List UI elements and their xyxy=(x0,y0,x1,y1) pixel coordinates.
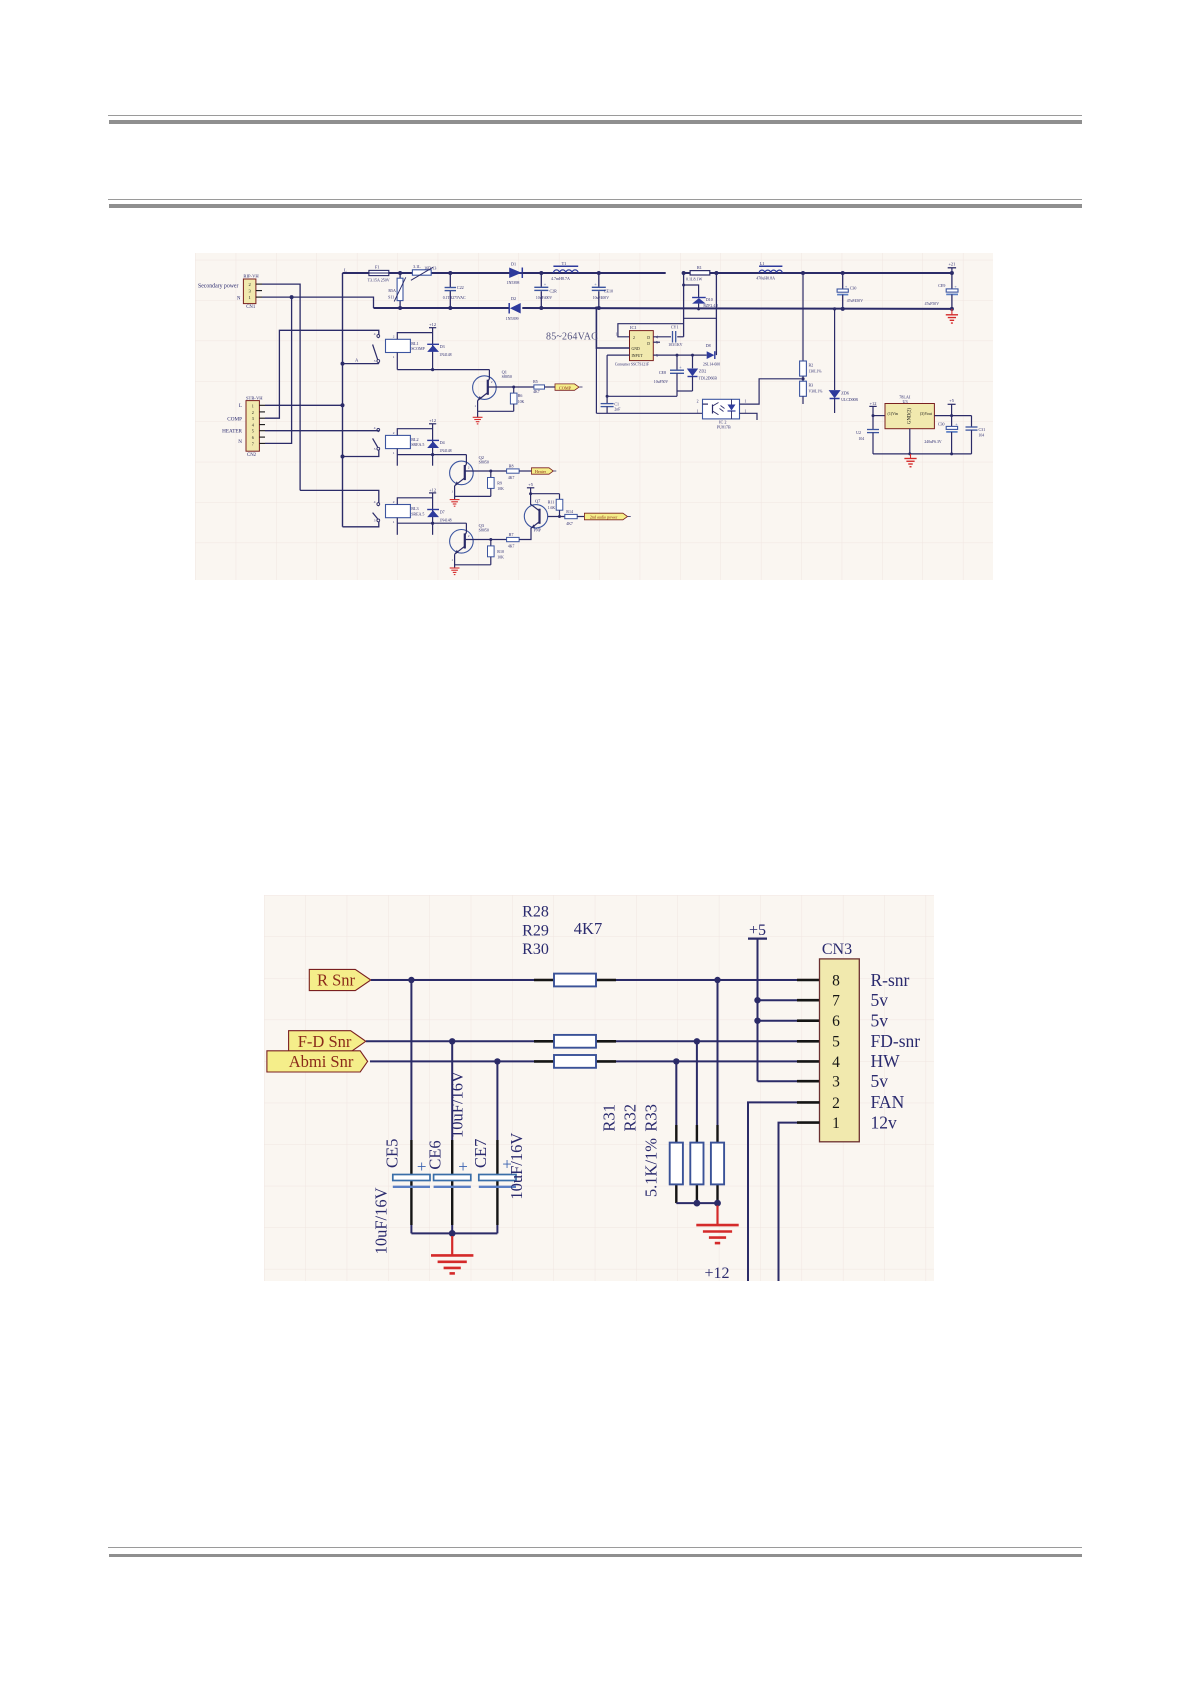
svg-text:+12: +12 xyxy=(704,1265,729,1281)
svg-text:4K7: 4K7 xyxy=(508,544,515,548)
svg-text:C22: C22 xyxy=(457,285,464,290)
resistor R10 xyxy=(489,538,492,541)
svg-text:L1: L1 xyxy=(760,261,765,266)
resistor R14 xyxy=(565,514,577,518)
svg-text:ULCD00B: ULCD00B xyxy=(841,398,858,402)
svg-text:1N5399: 1N5399 xyxy=(506,316,519,321)
svg-text:Q7: Q7 xyxy=(535,498,541,503)
svg-text:7: 7 xyxy=(252,441,254,446)
svg-text:T1: T1 xyxy=(562,261,567,266)
top rule thin xyxy=(108,115,1082,116)
wire N rail xyxy=(374,307,510,309)
svg-text:R3: R3 xyxy=(809,383,814,388)
svg-text:R9: R9 xyxy=(497,480,502,485)
svg-text:C1: C1 xyxy=(614,401,619,406)
diode D8 xyxy=(707,351,715,359)
svg-text:1: 1 xyxy=(393,520,395,524)
svg-text:RIP-VH: RIP-VH xyxy=(243,274,259,279)
wire U3 input xyxy=(873,415,885,417)
capacitor CY1 xyxy=(653,336,671,338)
ground Q3 xyxy=(454,565,456,568)
svg-text:6: 6 xyxy=(832,1013,840,1030)
resistor R7 xyxy=(507,537,519,541)
wire +5 to pin7 xyxy=(758,999,798,1001)
svg-text:10uF/16V: 10uF/16V xyxy=(507,1133,526,1200)
svg-text:1N4148: 1N4148 xyxy=(439,518,451,522)
wire Q2 base xyxy=(465,470,507,472)
resistor R33 xyxy=(711,1143,724,1185)
svg-text:+12: +12 xyxy=(429,322,436,327)
svg-text:L: L xyxy=(344,268,347,273)
svg-text:GND: GND xyxy=(632,347,640,351)
wire L vertical rail xyxy=(342,273,344,527)
capacitor C31 xyxy=(971,416,973,427)
svg-text:T3.15A 250V: T3.15A 250V xyxy=(368,277,390,282)
svg-text:2: 2 xyxy=(393,500,395,504)
wire IC1 gnd feed xyxy=(596,308,629,348)
capacitor C20 xyxy=(842,273,844,289)
svg-text:FD-snr: FD-snr xyxy=(871,1031,921,1051)
relay switch contacts xyxy=(377,335,380,338)
wire Q3 base xyxy=(465,539,507,541)
relay RL3 xyxy=(386,505,411,518)
wire jog xyxy=(684,317,717,319)
svg-text:R7: R7 xyxy=(509,532,514,537)
svg-text:4K7: 4K7 xyxy=(508,476,515,480)
svg-text:1.6K: 1.6K xyxy=(548,506,556,510)
svg-text:104: 104 xyxy=(859,437,865,441)
ground Q2 xyxy=(454,497,456,500)
svg-text:CY1: CY1 xyxy=(671,325,679,330)
svg-text:HEATER: HEATER xyxy=(222,428,242,434)
svg-text:10uF50V: 10uF50V xyxy=(654,380,669,384)
svg-text:N: N xyxy=(238,439,242,445)
svg-text:10uF/16V: 10uF/16V xyxy=(372,1187,391,1254)
svg-text:+5: +5 xyxy=(749,922,766,939)
svg-text:D4: D4 xyxy=(440,440,445,445)
node Abmi R31 junction xyxy=(673,1058,679,1064)
svg-text:CE10: CE10 xyxy=(604,288,613,293)
fuse F1 xyxy=(369,270,389,275)
wire left return xyxy=(606,355,608,396)
svg-text:PNP: PNP xyxy=(534,528,542,533)
capacitor plates xyxy=(434,1175,471,1181)
diode D7 xyxy=(427,509,439,511)
svg-text:1: 1 xyxy=(616,332,618,336)
svg-text:D3: D3 xyxy=(440,344,445,349)
svg-text:R29: R29 xyxy=(522,923,549,940)
svg-text:S8050: S8050 xyxy=(479,459,489,464)
svg-text:+12: +12 xyxy=(429,487,436,492)
svg-text:7: 7 xyxy=(832,993,840,1010)
wire R1 left vertical xyxy=(683,273,685,337)
svg-text:COMP: COMP xyxy=(227,417,242,423)
svg-text:4: 4 xyxy=(374,332,376,336)
svg-text:D8: D8 xyxy=(706,343,711,348)
svg-text:10K: 10K xyxy=(518,400,525,404)
node Abmi junction xyxy=(494,1058,500,1064)
svg-text:2: 2 xyxy=(633,336,635,340)
IC1 converter xyxy=(618,324,684,337)
port flag F-D Snr xyxy=(289,1031,366,1052)
connector CN3 xyxy=(820,959,860,1142)
wire RL2 switch bottom xyxy=(343,450,379,456)
svg-text:CE5: CE5 xyxy=(383,1139,402,1168)
capacitor C22 xyxy=(449,273,451,287)
wire FD line xyxy=(366,1040,534,1042)
optocoupler IC2 xyxy=(703,399,740,419)
node R snr junction xyxy=(408,977,414,983)
svg-text:Consumer SSC7S121F: Consumer SSC7S121F xyxy=(615,362,649,366)
second rule thick xyxy=(109,204,1082,208)
wire opto bottom run xyxy=(596,412,702,414)
svg-text:D: D xyxy=(647,336,650,340)
svg-text:ZD2: ZD2 xyxy=(699,368,706,373)
port flag R Snr xyxy=(309,969,371,990)
wire N vertical to CN2 pin7 xyxy=(265,297,292,443)
svg-text:+5: +5 xyxy=(528,482,533,487)
wire CN2 pin1 to L rail xyxy=(265,404,343,406)
svg-text:CN3: CN3 xyxy=(822,941,852,958)
svg-text:3: 3 xyxy=(252,416,254,421)
wire Q3 emitter to ground xyxy=(454,554,456,565)
transistor Q7 PNP xyxy=(524,505,547,528)
svg-text:CE9: CE9 xyxy=(938,283,945,288)
resistor R6 xyxy=(512,386,515,389)
wire Q3 collector xyxy=(465,523,467,532)
transistor Q1 xyxy=(473,376,497,400)
svg-text:12v: 12v xyxy=(871,1112,898,1132)
svg-text:C2R: C2R xyxy=(550,288,558,293)
svg-text:TDL2D66B: TDL2D66B xyxy=(699,377,718,381)
svg-text:ZD6: ZD6 xyxy=(841,390,849,395)
relay switch contacts xyxy=(377,429,380,432)
svg-text:IC1: IC1 xyxy=(630,325,637,330)
svg-text:0.1L8.1W: 0.1L8.1W xyxy=(686,277,702,282)
svg-text:3.1L: 3.1L xyxy=(413,264,421,269)
svg-text:4K7: 4K7 xyxy=(533,390,540,394)
port flag Abmi Snr xyxy=(267,1051,368,1072)
svg-text:CE8: CE8 xyxy=(659,370,666,375)
svg-text:3: 3 xyxy=(374,519,376,523)
port flag COMP xyxy=(555,384,579,390)
svg-text:4: 4 xyxy=(374,500,376,504)
svg-text:CN2: CN2 xyxy=(247,453,257,458)
svg-text:6: 6 xyxy=(252,435,254,440)
wire opto feedback to divider xyxy=(740,379,802,404)
svg-text:5v: 5v xyxy=(871,990,889,1010)
port flag 2nd audio power xyxy=(584,513,627,520)
svg-text:R32: R32 xyxy=(620,1104,639,1132)
wire +5 to pin6 xyxy=(758,1020,798,1022)
svg-text:1: 1 xyxy=(745,400,747,404)
svg-text:INPUT: INPUT xyxy=(632,354,644,358)
svg-text:10K: 10K xyxy=(497,555,504,559)
wire CN1 pin2 to vertical xyxy=(262,284,300,490)
svg-text:D: D xyxy=(647,342,650,346)
svg-text:10uF400V: 10uF400V xyxy=(536,296,553,300)
relay RL1 xyxy=(386,339,411,352)
resistor R9 xyxy=(489,470,492,473)
wire pin2 FAN xyxy=(797,1101,820,1104)
svg-text:HW: HW xyxy=(871,1051,901,1071)
capacitor C30 out xyxy=(951,416,953,427)
svg-text:D2: D2 xyxy=(511,296,516,301)
wire CE8 ZD2 bus xyxy=(677,390,693,392)
wire resistor ground bus xyxy=(676,1202,717,1204)
svg-text:104: 104 xyxy=(979,434,985,438)
svg-text:1N4148: 1N4148 xyxy=(439,353,451,357)
svg-text:D10: D10 xyxy=(706,297,713,302)
svg-text:+12: +12 xyxy=(429,418,436,423)
svg-text:COMP: COMP xyxy=(559,385,572,390)
svg-text:Heater: Heater xyxy=(535,469,547,474)
svg-text:2nF: 2nF xyxy=(614,407,620,411)
wire return to bottom bus xyxy=(595,348,597,413)
wire R32 column xyxy=(696,1041,698,1125)
svg-text:R-snr: R-snr xyxy=(871,970,910,990)
wire R-snr line xyxy=(371,979,534,981)
svg-text:BZF2.4.8: BZF2.4.8 xyxy=(703,304,718,308)
svg-text:+21: +21 xyxy=(948,261,955,266)
wire IC1 pin5 stub xyxy=(653,341,660,343)
svg-text:C30: C30 xyxy=(938,422,945,427)
wire Q2 collector xyxy=(465,455,467,465)
thermistor RT1 xyxy=(412,270,431,275)
svg-text:4.7mH8.7A: 4.7mH8.7A xyxy=(551,276,570,281)
svg-text:R1: R1 xyxy=(697,265,702,270)
svg-text:1: 1 xyxy=(393,451,395,455)
svg-text:5.1K/1%: 5.1K/1% xyxy=(642,1138,661,1197)
svg-text:U3: U3 xyxy=(903,399,908,404)
svg-text:47uF450V: 47uF450V xyxy=(847,299,864,303)
wire Abmi line xyxy=(370,1060,534,1062)
resistor R11 xyxy=(529,492,532,495)
resistor R28 xyxy=(554,974,596,987)
svg-text:R11: R11 xyxy=(548,500,555,505)
wire CN2 pin3 loop to RL1 switch xyxy=(265,330,379,418)
svg-text:(3)Vout: (3)Vout xyxy=(920,411,933,416)
wire RL3 coil bottom xyxy=(397,522,466,524)
svg-text:R30: R30 xyxy=(522,941,549,958)
svg-text:F-D Snr: F-D Snr xyxy=(298,1032,352,1051)
svg-text:2: 2 xyxy=(832,1095,840,1112)
relay switch contacts xyxy=(377,503,380,506)
transistor Q2 xyxy=(450,461,474,485)
resistor R31 xyxy=(670,1143,683,1185)
wire top L rail xyxy=(343,272,666,274)
ground resistors xyxy=(716,1206,718,1225)
pin stubs CN2 xyxy=(259,404,265,406)
svg-text:2: 2 xyxy=(393,335,395,339)
resistor R8 xyxy=(507,469,519,473)
wire Q2 emitter to ground xyxy=(454,486,456,497)
second rule thin xyxy=(108,199,1082,200)
ground capacitors xyxy=(451,1236,453,1255)
svg-text:CE7: CE7 xyxy=(471,1139,490,1168)
svg-text:5: 5 xyxy=(252,429,254,434)
ground CE9 xyxy=(951,309,953,315)
wire U3 output xyxy=(934,415,971,417)
wire Q1 emitter to ground xyxy=(477,401,479,412)
bottom rule thin xyxy=(108,1547,1082,1548)
wire pin1 12v xyxy=(797,1121,820,1124)
wire U3 ground bus xyxy=(873,453,972,455)
diode D4 xyxy=(427,439,439,441)
svg-text:4K7: 4K7 xyxy=(574,919,602,938)
diode D3 xyxy=(427,343,439,345)
wire R31 column xyxy=(675,1061,677,1125)
svg-text:3: 3 xyxy=(374,359,376,363)
diode D1 xyxy=(509,268,521,279)
svg-text:(1)Vin: (1)Vin xyxy=(888,411,898,416)
svg-text:SCOMP: SCOMP xyxy=(411,346,425,351)
port flag Heater xyxy=(532,468,554,474)
svg-text:130L1%: 130L1% xyxy=(809,369,823,373)
wire IC1 pin3 run xyxy=(607,354,629,356)
node FD junction xyxy=(449,1038,455,1044)
svg-text:CE6: CE6 xyxy=(426,1140,445,1169)
svg-text:10K: 10K xyxy=(497,487,504,491)
svg-text:5: 5 xyxy=(832,1034,840,1051)
capacitor plates xyxy=(393,1175,430,1181)
svg-text:R Snr: R Snr xyxy=(317,971,356,990)
svg-text:SREA.5: SREA.5 xyxy=(411,442,424,447)
zener ZD6 xyxy=(834,309,836,390)
inductor T1 xyxy=(553,265,578,267)
connector CN1 xyxy=(243,279,256,304)
svg-text:FAN: FAN xyxy=(871,1092,905,1112)
svg-text:D7: D7 xyxy=(440,509,445,514)
ground U3 xyxy=(910,454,912,458)
capacitor CE8 xyxy=(676,355,678,370)
zener D10 xyxy=(684,285,699,297)
svg-text:4: 4 xyxy=(832,1054,840,1071)
svg-text:R2: R2 xyxy=(809,362,814,367)
capacitor plates xyxy=(479,1175,516,1181)
svg-text:R6: R6 xyxy=(518,393,523,398)
svg-text:C30: C30 xyxy=(850,286,857,291)
resistor R5 xyxy=(534,385,545,389)
relay RL2 xyxy=(386,435,411,448)
svg-text:1: 1 xyxy=(697,409,699,413)
svg-text:470uH0.8A: 470uH0.8A xyxy=(756,275,775,280)
wire RL3 switch top from vertical xyxy=(300,490,379,502)
wire +5 to pin3 xyxy=(758,1080,798,1082)
svg-text:R8: R8 xyxy=(509,463,514,468)
svg-text:+5: +5 xyxy=(949,398,954,403)
resistor R32 xyxy=(690,1143,703,1185)
svg-text:CN1: CN1 xyxy=(246,305,256,310)
pin stubs CN1 xyxy=(256,283,262,285)
wire RL3 switch bottom xyxy=(343,522,379,527)
capacitor C8Ta xyxy=(598,273,600,287)
svg-text:4: 4 xyxy=(374,426,376,430)
wire R33 column xyxy=(717,980,719,1125)
svg-text:1N5398: 1N5398 xyxy=(507,280,520,285)
bottom rule thick xyxy=(109,1554,1082,1558)
wire CE6 column xyxy=(451,1041,453,1140)
ground Q1 xyxy=(477,411,479,417)
svg-text:V30L1%: V30L1% xyxy=(809,390,824,394)
wire CN2 pin5 to RL2 switch xyxy=(265,430,379,432)
transistor Q3 xyxy=(450,530,474,554)
zener ZD2 xyxy=(692,355,694,368)
svg-text:10uF400V: 10uF400V xyxy=(593,296,610,300)
wire R7 to Q7 base xyxy=(519,528,531,540)
svg-text:3: 3 xyxy=(374,447,376,451)
svg-text:1: 1 xyxy=(393,355,395,359)
wire R1 right vertical xyxy=(715,273,717,355)
svg-text:0.1TB275VAC: 0.1TB275VAC xyxy=(443,296,466,300)
node N junction xyxy=(290,295,294,299)
wire Q1 base xyxy=(488,386,534,388)
resistor R29 xyxy=(554,1035,596,1048)
svg-text:Secondary power: Secondary power xyxy=(198,284,238,290)
svg-text:240uF6.3V: 240uF6.3V xyxy=(924,440,941,444)
wire RL1 coil bottom xyxy=(397,369,489,371)
svg-text:10uF/16V: 10uF/16V xyxy=(447,1071,466,1138)
diode D2 xyxy=(510,303,521,314)
node FD R32 junction xyxy=(694,1038,700,1044)
top rule thick xyxy=(109,120,1082,124)
svg-text:5v: 5v xyxy=(871,1071,889,1091)
svg-text:C31: C31 xyxy=(979,427,986,432)
resistor R3 xyxy=(800,381,807,396)
svg-text:S8050: S8050 xyxy=(479,528,489,533)
wire CN1 pin1 N run xyxy=(262,297,374,308)
wire CE7 column xyxy=(496,1061,498,1140)
varistor R5A xyxy=(399,273,401,278)
svg-text:Abmi Snr: Abmi Snr xyxy=(289,1052,354,1071)
svg-text:2: 2 xyxy=(697,400,699,404)
svg-text:5v: 5v xyxy=(871,1011,889,1031)
capacitor C1 xyxy=(606,396,608,403)
inductor L1 xyxy=(759,265,782,267)
svg-text:D1: D1 xyxy=(511,261,516,266)
svg-text:8: 8 xyxy=(832,972,840,989)
wire CE5 column xyxy=(410,980,412,1140)
svg-text:R31: R31 xyxy=(600,1104,619,1132)
capacitor C2R xyxy=(540,273,542,287)
svg-text:GND(2): GND(2) xyxy=(908,408,913,424)
svg-text:R10: R10 xyxy=(497,549,504,554)
svg-text:STB-VH: STB-VH xyxy=(246,396,263,401)
svg-text:R5: R5 xyxy=(533,379,538,384)
connector CN2 xyxy=(246,401,259,452)
svg-text:2nd audio power: 2nd audio power xyxy=(590,515,618,520)
svg-text:L: L xyxy=(239,403,242,409)
svg-text:R28: R28 xyxy=(522,904,549,921)
wire capacitor ground bus xyxy=(411,1232,497,1234)
svg-text:R14: R14 xyxy=(566,509,573,514)
capacitor U2 xyxy=(872,416,874,430)
svg-text:PU817B: PU817B xyxy=(717,425,731,430)
svg-text:4K7: 4K7 xyxy=(566,522,573,526)
resistor R30 xyxy=(554,1055,596,1068)
wire RL2 coil bottom xyxy=(397,454,466,456)
svg-text:2: 2 xyxy=(252,410,254,415)
svg-text:47uF50V: 47uF50V xyxy=(925,302,940,306)
svg-text:S11: S11 xyxy=(388,295,394,300)
wire Q7 output xyxy=(548,516,565,518)
resistor R2 xyxy=(802,273,804,361)
resistor R1 xyxy=(690,271,710,275)
svg-text:+12: +12 xyxy=(870,401,877,406)
capacitor CE9 xyxy=(951,273,953,289)
svg-text:1N4148: 1N4148 xyxy=(439,449,451,453)
svg-text:R5A: R5A xyxy=(388,288,396,293)
